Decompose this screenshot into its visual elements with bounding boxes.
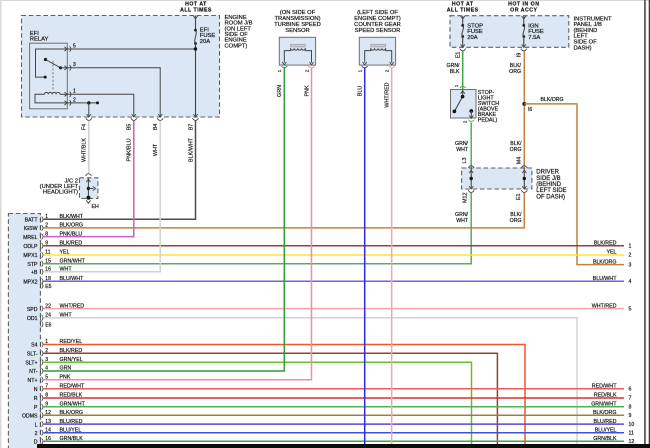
svg-text:E5: E5 — [45, 284, 51, 290]
svg-text:P: P — [34, 405, 38, 411]
ECU pin IGSW connector — [39, 226, 41, 230]
svg-text:11: 11 — [629, 430, 634, 436]
svg-text:I9: I9 — [516, 53, 522, 58]
connector L3 entry — [468, 166, 474, 168]
svg-text:BLU/RED: BLU/RED — [594, 419, 617, 425]
wire WHT/RED sensor to bottom — [391, 68, 393, 444]
svg-text:ODLP: ODLP — [23, 244, 38, 250]
svg-text:YEL: YEL — [606, 250, 616, 256]
svg-text:ENGINE COMPT): ENGINE COMPT) — [354, 16, 401, 22]
svg-text:3: 3 — [73, 62, 76, 68]
svg-text:1: 1 — [629, 244, 632, 250]
fuse STOP border arrow — [461, 16, 465, 19]
svg-text:PNK: PNK — [304, 85, 310, 96]
svg-text:ORG: ORG — [510, 218, 522, 224]
svg-text:GRN/BLK: GRN/BLK — [593, 436, 617, 442]
relay coil — [44, 92, 60, 94]
relay armature dashed link — [52, 61, 54, 91]
sensor pin arrows — [363, 62, 367, 65]
svg-text:WHT: WHT — [456, 147, 469, 153]
svg-text:B5: B5 — [127, 124, 133, 131]
svg-text:BLU/WHT: BLU/WHT — [593, 276, 618, 282]
svg-text:BLK/RED: BLK/RED — [594, 241, 617, 247]
svg-text:L: L — [35, 422, 38, 428]
svg-text:SPEED SENSOR: SPEED SENSOR — [355, 28, 401, 34]
svg-text:BLU: BLU — [358, 86, 364, 97]
svg-text:(ON SIDE OF: (ON SIDE OF — [280, 10, 316, 16]
svg-text:RELAY: RELAY — [30, 37, 49, 43]
wire GRN/WHT driver J/B to row 15 — [44, 193, 472, 264]
svg-text:HOT AT: HOT AT — [185, 1, 207, 7]
relay pin 2 connector — [64, 101, 67, 105]
wire 1 RED/YEL row — [44, 345, 526, 445]
switch contact dot top — [461, 95, 465, 99]
svg-text:4: 4 — [629, 279, 632, 285]
wire 9 BLK/RED row — [44, 245, 625, 247]
svg-text:2: 2 — [304, 69, 309, 72]
wire BLU sensor to bottom — [364, 68, 366, 444]
sensor box at x=359.3 — [359, 37, 395, 65]
ECU pin E5 — [39, 284, 41, 288]
connector F4 at engine-room J/B exit — [87, 114, 91, 117]
ECU pin SLT+ connector — [39, 360, 41, 364]
svg-text:TURBINE SPEED: TURBINE SPEED — [274, 22, 321, 28]
svg-text:BLK/WHT: BLK/WHT — [188, 137, 194, 162]
svg-text:OR ACCY: OR ACCY — [510, 7, 537, 13]
svg-text:GRN/WHT: GRN/WHT — [591, 402, 617, 408]
svg-text:BLK/ORG: BLK/ORG — [60, 223, 84, 229]
svg-text:10: 10 — [629, 422, 635, 428]
svg-text:COUNTER GEAR: COUNTER GEAR — [354, 22, 401, 28]
svg-text:E6: E6 — [45, 322, 51, 328]
svg-text:8: 8 — [629, 405, 632, 411]
svg-text:M12: M12 — [463, 193, 469, 204]
sensor U1: turbine speed sensor — [0, 0, 1, 1]
wire 13 BLU/RED row — [44, 423, 625, 425]
wire 11 YEL row — [44, 254, 625, 256]
ground EH arrow — [86, 200, 90, 203]
svg-text:SLT-: SLT- — [27, 352, 38, 358]
fuse EFI border arrow — [193, 16, 197, 19]
svg-text:2: 2 — [35, 431, 38, 437]
wire BLK/ORG inside driver J/B — [523, 168, 525, 189]
wire 2 BLK/RED row — [44, 353, 498, 444]
node dot in J/C2 — [87, 187, 90, 190]
fuse IGN border arrow — [522, 16, 526, 19]
svg-text:DASH): DASH) — [574, 45, 592, 51]
connector I9 at instrument J/B exit — [522, 44, 526, 47]
svg-text:WHT/BLK: WHT/BLK — [82, 138, 88, 162]
sensor core — [291, 44, 306, 47]
svg-text:I6: I6 — [528, 107, 532, 113]
relay pin 3 connector — [64, 66, 67, 70]
svg-text:SPD: SPD — [27, 307, 38, 313]
svg-text:WHT/RED: WHT/RED — [592, 303, 617, 309]
svg-text:HOT AT: HOT AT — [452, 1, 474, 7]
svg-text:GRN: GRN — [277, 85, 283, 97]
ECU connector box (dashed) — [8, 214, 40, 448]
node dot on GRN/WHT in J/B — [470, 177, 473, 180]
sensor coil — [371, 48, 386, 50]
svg-text:(LEFT SIDE OF: (LEFT SIDE OF — [357, 10, 398, 16]
svg-text:ORG: ORG — [510, 147, 522, 153]
sensor coil — [291, 48, 306, 50]
wire 9 GRN/WHT row — [44, 406, 625, 408]
svg-text:IGSW: IGSW — [24, 226, 38, 232]
svg-text:MREL: MREL — [23, 235, 38, 241]
wire BLK/ORG driver J/B to row 2 — [44, 193, 525, 228]
svg-text:EH: EH — [92, 204, 99, 210]
svg-text:GRN/WHT: GRN/WHT — [60, 258, 86, 264]
switch exit connector — [469, 115, 473, 118]
svg-text:ALL TIMES: ALL TIMES — [447, 7, 479, 13]
svg-text:2: 2 — [385, 69, 390, 72]
sensor pin connectors — [281, 66, 287, 68]
relay fixed contact dot — [44, 76, 47, 79]
svg-text:MPX1: MPX1 — [23, 253, 37, 259]
ECU pin 2 connector — [39, 431, 41, 435]
sensor pin arrows — [282, 62, 286, 65]
wire 24 WHT row — [44, 318, 578, 444]
svg-text:20A: 20A — [467, 35, 477, 41]
J/C2 branch arrow — [88, 188, 93, 190]
svg-text:B7: B7 — [188, 124, 194, 131]
svg-text:WHT/RED: WHT/RED — [385, 82, 391, 107]
svg-text:HEADLIGHT): HEADLIGHT) — [43, 190, 78, 196]
svg-text:MPX2: MPX2 — [23, 280, 37, 286]
svg-text:OD1: OD1 — [27, 316, 38, 322]
svg-text:TRANSMISSION): TRANSMISSION) — [274, 16, 320, 22]
wire inside J/C2 — [87, 178, 89, 198]
fuse IGN 7.5A — [523, 16, 525, 26]
ECU pin BATT connector — [39, 217, 41, 221]
ECU pin E6 — [39, 322, 41, 326]
wire GRN/WHT switch to driver J/B — [470, 123, 472, 169]
ECU pin STP connector — [39, 262, 41, 266]
switch arm — [454, 97, 462, 112]
svg-text:LEFT SIDE: LEFT SIDE — [536, 188, 566, 194]
ECU pin ODLP connector — [39, 244, 41, 248]
connector M4 entry — [521, 166, 527, 168]
svg-text:1: 1 — [358, 69, 363, 72]
svg-text:2: 2 — [629, 253, 632, 259]
ECU pin MPX2 connector — [39, 279, 41, 283]
svg-text:3: 3 — [629, 262, 632, 268]
ECU pin P connector — [39, 405, 41, 409]
wire 18 BLU/WHT row — [44, 280, 625, 282]
relay EFI RELAY box — [30, 43, 68, 109]
svg-text:1: 1 — [73, 89, 76, 95]
svg-text:PNK/BLU: PNK/BLU — [127, 138, 133, 161]
relay coil return wire — [35, 94, 67, 103]
wire 12 BLK/ORG row — [44, 414, 625, 416]
svg-text:HOT IN ON: HOT IN ON — [508, 1, 539, 7]
svg-text:7: 7 — [629, 396, 632, 402]
right border lines — [644, 0, 646, 448]
node: pin5 wire to fuse junction — [67, 48, 196, 50]
svg-text:E1: E1 — [455, 52, 461, 59]
ECU pin SLT- connector — [39, 351, 41, 355]
connector M12 exit — [469, 186, 473, 189]
svg-text:M4: M4 — [517, 157, 523, 165]
connector E1 at instrument J/B exit — [461, 44, 465, 47]
relay pin 1 connector — [64, 92, 67, 96]
svg-text:SLT+: SLT+ — [25, 360, 37, 366]
node dot on BLK/ORG in J/B — [523, 177, 526, 180]
svg-text:9: 9 — [629, 413, 632, 419]
wire 8 PNK/BLU row — [44, 121, 134, 237]
svg-text:6: 6 — [629, 386, 632, 392]
ECU pin N connector — [39, 387, 41, 391]
switch output stub — [470, 111, 472, 118]
wire 16 WHT row — [44, 121, 161, 272]
junction block: DRIVER SIDE J/B (dashed) — [462, 168, 532, 189]
sensor box at x=279.3 — [279, 37, 315, 65]
svg-text:BLK/ORG: BLK/ORG — [593, 259, 617, 265]
connector B4 at engine-room J/B exit — [158, 114, 162, 117]
sensor U2: counter gear speed sensor — [0, 0, 1, 1]
svg-text:L3: L3 — [462, 158, 468, 164]
switch entry connector — [460, 86, 466, 88]
relay switch arm — [46, 60, 61, 68]
switch contact dot left — [453, 110, 457, 114]
svg-text:+B: +B — [31, 270, 38, 276]
connector E1 exit — [522, 186, 526, 189]
relay upper contact dot — [44, 58, 47, 61]
relay pin-3 stub — [61, 67, 68, 69]
svg-text:SENSOR: SENSOR — [285, 28, 309, 34]
fuse EFI 20A — [195, 16, 197, 31]
svg-text:RED/BLK: RED/BLK — [594, 393, 617, 399]
fuse STOP 20A — [462, 16, 464, 26]
wire 5 PNK row — [44, 68, 312, 380]
wire 8 RED/BLK row — [44, 397, 625, 399]
junction block: ENGINE ROOM J/B (dashed) — [22, 16, 220, 118]
wire BLK/ORG branch to right — [524, 104, 624, 265]
ECU pin L connector — [39, 422, 41, 426]
wire 1 BLK/WHT row — [44, 121, 196, 220]
svg-text:STP: STP — [27, 262, 38, 268]
wire relay pin3 to exit B4 — [67, 68, 160, 117]
svg-text:BATT: BATT — [25, 218, 39, 224]
ECU pin ODMS connector — [39, 413, 41, 417]
ECU pin S4 connector — [39, 342, 41, 346]
wire relay pin1 to exit B5 — [67, 94, 134, 117]
svg-text:15: 15 — [45, 258, 51, 264]
svg-text:(BEHIND: (BEHIND — [536, 182, 561, 188]
wire 16 GRN/BLK row — [44, 440, 625, 442]
svg-text:RED/WHT: RED/WHT — [592, 383, 617, 389]
svg-text:ODMS: ODMS — [22, 414, 38, 420]
ECU pin R connector — [39, 396, 41, 400]
ECU pin SPD connector — [39, 306, 41, 310]
wire relay pin2 to exit F4 — [67, 102, 98, 104]
wire GRN/BLK stop-fuse to stoplight switch — [462, 51, 464, 89]
bottom black bar — [37, 444, 650, 448]
ECU pin OD1 connector — [39, 316, 41, 320]
ECU pin MREL connector — [39, 234, 41, 238]
relay arm contact dot — [59, 66, 62, 69]
sensor winding legs — [365, 48, 371, 62]
svg-text:OF DASH): OF DASH) — [536, 194, 565, 200]
ground terminal dot — [86, 196, 90, 200]
J/C2 entry arrow — [86, 179, 90, 182]
sensor pin connectors — [362, 66, 368, 68]
connector B7 at engine-room J/B exit — [193, 114, 197, 117]
wire GRN/WHT inside driver J/B — [470, 168, 472, 189]
wire 22 WHT/RED row — [44, 308, 625, 310]
wire 14 BLU/YEL row — [44, 432, 625, 434]
svg-text:20A: 20A — [200, 39, 210, 45]
svg-text:7.5A: 7.5A — [528, 35, 540, 41]
svg-text:F4: F4 — [82, 124, 88, 130]
svg-text:2: 2 — [45, 223, 48, 229]
svg-text:BLK/ORG: BLK/ORG — [593, 410, 617, 416]
wire 7 RED/WHT row — [44, 388, 625, 390]
svg-text:NT-: NT- — [29, 369, 38, 375]
svg-text:BLK/ORG: BLK/ORG — [541, 97, 564, 103]
ECU pin MPX1 connector — [39, 253, 41, 257]
svg-text:COMPT): COMPT) — [225, 43, 248, 49]
ECU pin NT- connector — [39, 369, 41, 373]
svg-text:N: N — [34, 387, 38, 393]
switch entry stub — [462, 90, 464, 97]
svg-text:WHT: WHT — [456, 218, 469, 224]
svg-text:S4: S4 — [31, 343, 37, 349]
relay pin 5 connector — [64, 47, 67, 51]
svg-text:SIDE J/B: SIDE J/B — [536, 176, 560, 182]
connector B5 at engine-room J/B exit — [132, 114, 136, 117]
svg-text:WHT: WHT — [153, 143, 159, 156]
relay pin-5 internal wire — [36, 49, 68, 77]
junction block: INSTRUMENT PANEL J/B (dashed) — [450, 16, 569, 48]
J/C2 entry connector — [85, 174, 91, 176]
svg-text:5: 5 — [629, 306, 632, 312]
svg-text:R: R — [34, 396, 38, 402]
svg-text:NT+: NT+ — [28, 378, 38, 384]
svg-text:ORG: ORG — [509, 69, 521, 75]
wire 3 GRN/YEL row — [44, 362, 472, 444]
switch S1: STOP LIGHT SWITCH box — [451, 90, 477, 119]
node I6 junction — [522, 102, 526, 106]
ECU pin +B connector — [39, 270, 41, 274]
switch contact dot right — [469, 109, 473, 113]
svg-text:BLU/YEL: BLU/YEL — [595, 427, 617, 433]
svg-text:ALL TIMES: ALL TIMES — [180, 7, 212, 13]
svg-text:B4: B4 — [153, 124, 159, 131]
ECU pin D connector — [39, 439, 41, 443]
sensor winding legs — [284, 48, 290, 62]
svg-text:BLK: BLK — [450, 69, 460, 75]
wire WHT/BLK exit to J/C2 — [88, 121, 90, 173]
wire BLK/ORG ign-fuse down to driver J/B — [523, 51, 525, 168]
junction connector: J/C 2 (dashed) — [80, 178, 98, 199]
sensor core — [371, 44, 386, 47]
ECU pin NT+ connector — [39, 378, 41, 382]
svg-text:PEDAL): PEDAL) — [478, 117, 498, 123]
svg-text:1: 1 — [277, 69, 282, 72]
svg-text:E1: E1 — [516, 194, 522, 201]
svg-text:DRIVER: DRIVER — [536, 170, 559, 176]
wire 4 GRN row — [44, 68, 285, 371]
